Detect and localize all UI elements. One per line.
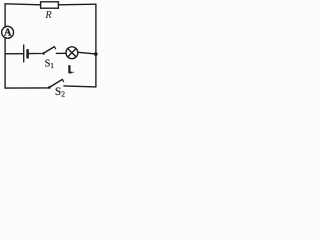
wire bottom-left <box>5 87 48 89</box>
battery long plate <box>23 45 25 62</box>
ammeter A1 <box>2 26 14 38</box>
switch S1 pivot <box>42 52 45 55</box>
svg-text:R: R <box>44 10 52 21</box>
svg-text:A: A <box>4 28 12 39</box>
switch S2 contact <box>62 79 63 81</box>
junction node dot <box>94 52 98 56</box>
wire middle branch from left rail <box>5 53 23 55</box>
wire battery to switch S1 <box>29 53 41 55</box>
label period after L <box>72 72 74 74</box>
battery short plate <box>26 50 29 57</box>
wire left rail upper <box>4 4 6 27</box>
wire top-left to resistor <box>5 4 41 5</box>
lamp X stroke 1 <box>68 49 76 57</box>
switch S1 arm <box>44 47 54 53</box>
wire resistor to top-right corner <box>58 3 96 6</box>
switch S1 contact <box>54 47 55 49</box>
lamp L <box>66 47 78 59</box>
switch S2 arm <box>50 80 62 87</box>
lamp X stroke 2 <box>68 49 76 57</box>
wire lamp to right rail <box>78 52 95 54</box>
wire right rail <box>95 4 97 87</box>
resistor R <box>41 2 59 8</box>
wire S2 to bottom-right corner <box>64 86 96 87</box>
wire S1 to lamp <box>56 52 65 54</box>
label L <box>68 65 72 73</box>
switch S2 pivot <box>48 86 51 89</box>
wire left rail lower <box>4 38 6 88</box>
